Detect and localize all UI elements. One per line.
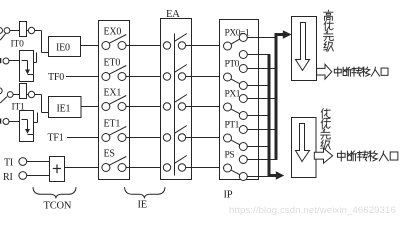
switch PX1 blade (low) xyxy=(231,109,240,114)
selector box IT0 xyxy=(20,22,27,37)
label INT0 remnant xyxy=(0,58,1,63)
switch IT0 contact node xyxy=(4,28,10,34)
gate box EA xyxy=(161,19,192,180)
wire xyxy=(42,112,49,114)
svg-text:ET1: ET1 xyxy=(104,118,121,129)
brace TCON xyxy=(33,187,76,197)
wire xyxy=(41,31,43,53)
switch EA blade xyxy=(175,156,187,164)
label TCON xyxy=(44,201,72,212)
wire xyxy=(34,53,37,63)
wire low xyxy=(247,115,270,117)
switch ET0 contact node xyxy=(102,73,110,81)
wire high xyxy=(247,129,277,131)
label RI xyxy=(3,172,13,183)
polling arrow (low) xyxy=(296,124,310,162)
switch EA contact node xyxy=(178,103,185,110)
label IP xyxy=(224,190,233,201)
node INT0 edge input xyxy=(3,58,9,64)
switch IT1 contact node xyxy=(7,92,13,98)
vector exit arrow (low) xyxy=(314,148,332,163)
label EA xyxy=(166,9,180,20)
switch EA contact node xyxy=(163,134,170,141)
wire xyxy=(186,106,224,108)
switch IT0 blade xyxy=(0,34,5,41)
wire xyxy=(67,137,99,139)
arrow into high-priority resolver xyxy=(283,30,292,39)
brace IE xyxy=(125,187,166,197)
wire xyxy=(126,45,163,47)
wire xyxy=(41,95,43,113)
label 中断转移入口 (high) xyxy=(334,67,388,76)
wire high xyxy=(247,159,277,161)
svg-text:IT0: IT0 xyxy=(11,40,25,50)
edge detector box (INT0) xyxy=(20,51,34,82)
wire xyxy=(27,175,50,177)
switch PT1 pivot node xyxy=(224,134,232,142)
svg-text:https://blog.csdn.net/weixin_4: https://blog.csdn.net/weixin_46629316 xyxy=(229,205,396,216)
wire xyxy=(34,113,38,123)
wire xyxy=(186,76,224,78)
switch PX1 high contact xyxy=(239,95,247,103)
switch EA contact node xyxy=(178,134,185,141)
wire high xyxy=(247,98,277,100)
svg-text:PT0: PT0 xyxy=(225,59,240,69)
svg-text:PS: PS xyxy=(225,150,235,160)
label 高优先级 (vertical) xyxy=(324,10,334,51)
switch EA contact node xyxy=(163,73,170,80)
switch EA blade xyxy=(175,65,187,73)
svg-text:IE0: IE0 xyxy=(56,43,70,54)
wire xyxy=(126,106,163,108)
label PX0=1 xyxy=(225,28,250,38)
label EX0 xyxy=(104,26,122,37)
INT0 pin terminal (clipped at edge) xyxy=(0,28,3,34)
wire xyxy=(42,52,49,54)
svg-text:EX0: EX0 xyxy=(104,26,122,37)
svg-text:IE: IE xyxy=(138,200,148,211)
wire xyxy=(186,45,224,47)
label ET1 xyxy=(104,118,121,129)
switch IT0 contact node xyxy=(28,27,34,33)
svg-text:IP: IP xyxy=(224,190,233,201)
switch PX0=1 low contact xyxy=(239,51,247,59)
switch PX1 low contact xyxy=(239,112,247,120)
switch PX0 blade (high) xyxy=(231,39,240,44)
wire high xyxy=(247,68,277,70)
switch EX1 blade xyxy=(109,96,126,105)
svg-text:TF1: TF1 xyxy=(48,133,64,144)
svg-text:TF0: TF0 xyxy=(48,72,64,83)
terminal TI xyxy=(19,158,27,166)
flip-flop IE0 xyxy=(49,37,81,57)
low priority resolver box xyxy=(292,118,317,178)
wire xyxy=(9,60,20,62)
switch EA blade xyxy=(175,126,187,134)
wire xyxy=(126,76,163,78)
wire xyxy=(27,161,50,163)
INT1 pin terminal (clipped at edge) xyxy=(0,88,2,94)
switch PT1 high contact xyxy=(239,126,247,134)
switch ES blade xyxy=(109,157,126,166)
label INT1 remnant xyxy=(0,119,1,124)
svg-text:ES: ES xyxy=(104,148,115,159)
svg-text:TCON: TCON xyxy=(44,201,72,212)
flip-flop IE1 xyxy=(49,97,82,118)
label PT1 xyxy=(225,120,240,130)
wire high xyxy=(247,37,277,39)
svg-text:PT1: PT1 xyxy=(225,120,240,130)
switch PS blade (low) xyxy=(231,170,240,175)
switch EX1 contact node xyxy=(102,103,110,111)
switch ES contact node xyxy=(118,164,126,172)
label IT0 xyxy=(11,40,25,50)
svg-text:IE1: IE1 xyxy=(57,104,71,115)
switch EX0 contact node xyxy=(102,42,110,50)
switch EA contact node xyxy=(163,103,170,110)
label TF1 xyxy=(48,133,64,144)
switch PT0 pivot node xyxy=(224,73,232,81)
register box IP (priority selects) xyxy=(220,20,259,180)
wire xyxy=(126,137,163,139)
wire xyxy=(81,45,99,47)
wire xyxy=(13,94,42,96)
label 低优先级 (vertical) xyxy=(321,109,331,150)
wire low xyxy=(247,54,270,56)
switch ES contact node xyxy=(102,164,110,172)
wire xyxy=(66,76,99,78)
wire low xyxy=(247,176,270,178)
svg-text:RI: RI xyxy=(3,172,13,183)
switch PT0 high contact xyxy=(239,65,247,73)
switch ET0 blade xyxy=(109,66,126,75)
wire xyxy=(186,137,224,139)
selector box IT1 xyxy=(20,84,27,99)
switch EA blade xyxy=(175,34,187,42)
switch EX1 contact node xyxy=(118,103,126,111)
label EX1 xyxy=(104,87,122,98)
svg-text:ET0: ET0 xyxy=(104,57,121,68)
switch PX0=1 pivot node xyxy=(224,42,232,50)
switch PS pivot node xyxy=(224,164,232,172)
label PS xyxy=(225,150,235,160)
register box IE (enable latches) xyxy=(99,21,130,180)
label IT1 xyxy=(12,103,26,113)
svg-text:PX1: PX1 xyxy=(225,89,241,99)
svg-text:EX1: EX1 xyxy=(104,87,122,98)
edge detector box (INT1) xyxy=(20,111,34,142)
terminal RI xyxy=(19,172,27,180)
label PT0 xyxy=(225,59,240,69)
switch IT1 contact node xyxy=(28,91,34,97)
vector exit arrow (high) xyxy=(317,64,332,79)
switch PS low contact xyxy=(239,173,247,181)
wire xyxy=(10,30,42,32)
label PX1 xyxy=(225,89,241,99)
switch EA blade xyxy=(175,95,187,103)
switch PS high contact xyxy=(239,156,247,164)
switch EA contact node xyxy=(178,164,185,171)
label IE xyxy=(138,200,148,211)
switch EX0 blade xyxy=(109,35,126,44)
switch EA gang link xyxy=(174,34,176,176)
label 中断转移入口 (low) xyxy=(337,151,397,161)
switch PT1 low contact xyxy=(239,143,247,151)
OR gate (+) xyxy=(50,157,65,182)
high priority resolver box xyxy=(292,17,317,81)
wire xyxy=(65,167,99,169)
switch ET1 contact node xyxy=(118,134,126,142)
switch EA contact node xyxy=(178,42,185,49)
switch EA contact node xyxy=(178,73,185,80)
watermark URL xyxy=(229,205,396,216)
switch ET1 blade xyxy=(109,127,126,136)
switch PX1 pivot node xyxy=(224,103,232,111)
bus low priority xyxy=(269,55,276,176)
switch ET0 contact node xyxy=(118,73,126,81)
label TI xyxy=(4,158,13,169)
polling arrow (high) xyxy=(296,23,310,71)
node INT1 edge input xyxy=(3,119,9,125)
wire xyxy=(81,106,99,108)
switch PT1 blade (low) xyxy=(231,140,240,145)
wire xyxy=(9,121,20,123)
label TF0 xyxy=(48,72,64,83)
switch EX0 contact node xyxy=(118,42,126,50)
wire xyxy=(126,167,163,169)
switch PT0 low contact xyxy=(239,82,247,90)
switch ET1 contact node xyxy=(102,134,110,142)
wire low xyxy=(247,146,270,148)
wire xyxy=(186,167,224,169)
switch EA contact node xyxy=(163,42,170,49)
svg-text:TI: TI xyxy=(4,158,13,169)
switch PX0=1 high contact xyxy=(239,34,247,42)
switch EA contact node xyxy=(163,164,170,171)
switch IT1 blade xyxy=(0,97,7,103)
bus high priority xyxy=(276,35,283,160)
label ES xyxy=(104,148,115,159)
wire low xyxy=(247,85,270,87)
label ET0 xyxy=(104,57,121,68)
switch PT0 blade (low) xyxy=(231,79,240,84)
arrow into low-priority resolver xyxy=(276,171,284,180)
